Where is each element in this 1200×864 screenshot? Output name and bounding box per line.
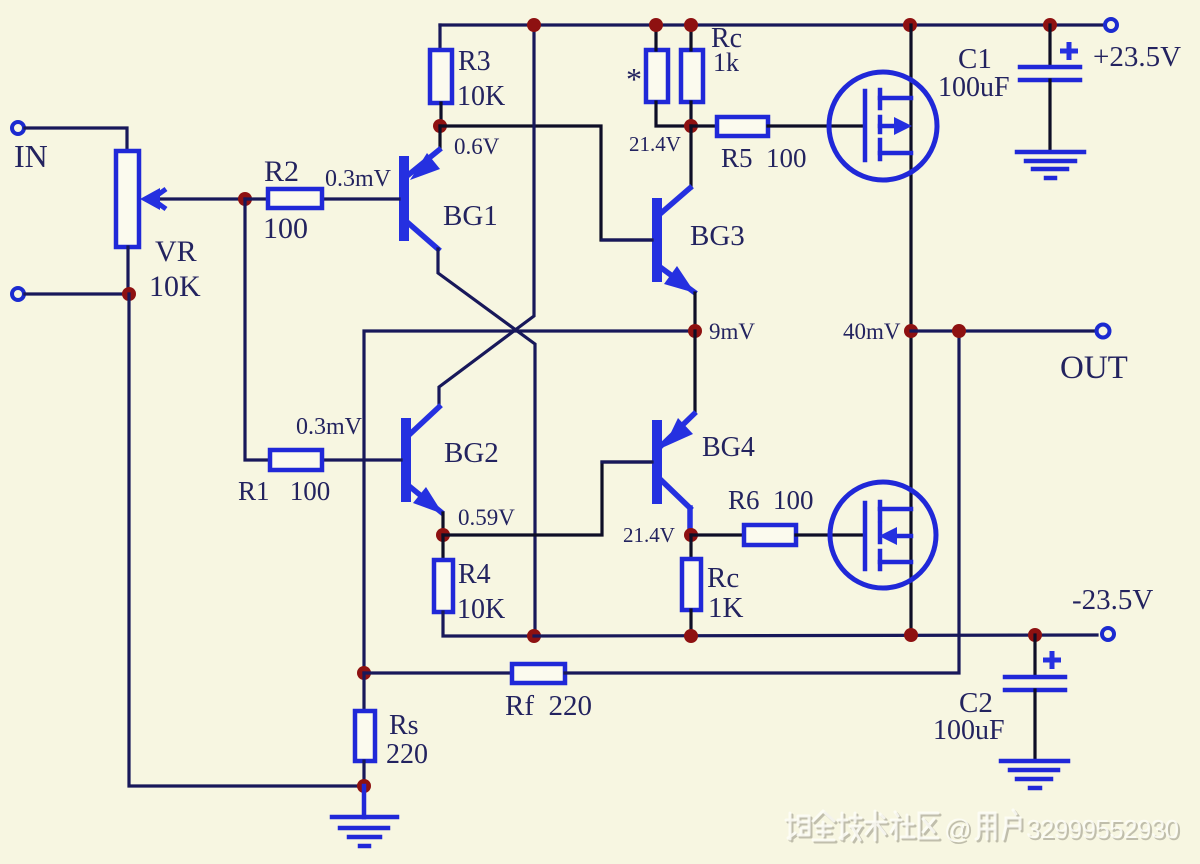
node rail dot Rc lower: [684, 629, 698, 643]
wire IN+ to VR top: [25, 128, 127, 151]
label R3: [458, 46, 491, 77]
svg-text:0.3mV: 0.3mV: [325, 166, 392, 192]
node 0.6V dot: [433, 119, 447, 133]
label Rf: [505, 690, 592, 722]
label 21.4V lower: [623, 523, 675, 547]
wire BG2 emitter stub: [441, 513, 444, 535]
wire R2 left stub: [245, 197, 268, 200]
svg-text:0.3mV: 0.3mV: [296, 414, 363, 440]
label R5: [721, 143, 807, 173]
wire R4 bottom to -V rail: [443, 612, 534, 636]
node rail dot M2: [904, 628, 918, 642]
svg-text:BG2: BG2: [444, 437, 499, 469]
label 21.4V upper: [629, 132, 681, 156]
mosfet M2: [830, 482, 936, 588]
wire 21.4V lower to Rc lower: [689, 535, 692, 559]
svg-text:VR: VR: [155, 235, 197, 268]
svg-text:BG1: BG1: [443, 200, 498, 232]
label BG1: [443, 200, 498, 232]
resistor R1: [270, 450, 322, 470]
wire -V rail: [534, 635, 1097, 636]
svg-text:IN: IN: [14, 138, 48, 174]
label R1: [238, 476, 330, 506]
label VR value: [149, 270, 201, 303]
wire 0.6V node to BG3 base: [440, 126, 651, 240]
potentiometer VR: [116, 151, 245, 247]
node rail dot M1: [903, 18, 917, 32]
wire 9mV to BG4: [693, 331, 696, 413]
label R3 value: [457, 81, 505, 112]
label 0.3mV upper: [325, 166, 392, 192]
svg-text:Rf 220: Rf 220: [505, 690, 592, 722]
wire Rf right to output node: [565, 331, 959, 673]
node 0.59V dot: [436, 528, 450, 542]
terminal +V: [1105, 19, 1117, 31]
wire Rc star stubs: [656, 25, 690, 126]
wire BG1 emitter stub: [438, 126, 441, 149]
resistor R2: [268, 189, 322, 208]
label Rc upper: [711, 23, 742, 54]
transistor BG3: [602, 188, 695, 293]
wire IN- to node: [25, 292, 129, 295]
transistor BG2: [322, 407, 443, 514]
label C2 value: [933, 715, 1005, 746]
label R2 value: [263, 212, 308, 245]
wire y331 feedback horizontal: [364, 331, 695, 673]
label OUT: [1060, 350, 1128, 386]
label +23.5V: [1093, 41, 1181, 73]
label BG2: [444, 437, 499, 469]
label R4 value: [457, 594, 505, 625]
label Rs: [389, 710, 419, 741]
label IN: [14, 138, 48, 174]
label Rs value: [386, 739, 428, 770]
svg-text:10K: 10K: [457, 81, 505, 112]
label C2: [959, 687, 993, 719]
wire R5 to gate M1: [768, 124, 863, 127]
label BG4: [702, 432, 755, 463]
svg-text:R2: R2: [264, 155, 299, 188]
transistor BG4: [602, 414, 694, 530]
svg-text:0.6V: 0.6V: [454, 134, 500, 159]
label C1 plus: [1060, 42, 1078, 60]
svg-text:BG4: BG4: [702, 432, 755, 463]
label -23.5V: [1072, 584, 1153, 616]
wire BG1 collector to X to -V rail: [438, 249, 535, 636]
label R4: [458, 559, 491, 590]
resistor Rs: [355, 711, 375, 761]
wire left vertical to bottom: [129, 294, 363, 786]
label 0.59V: [458, 505, 515, 530]
wire wiper node down to R1: [245, 199, 270, 460]
node ground dot: [357, 779, 371, 793]
label VR: [155, 235, 197, 268]
svg-text:R4: R4: [458, 559, 491, 590]
terminal IN-: [12, 288, 24, 300]
svg-text:Rc: Rc: [707, 562, 739, 594]
svg-text:R3: R3: [458, 46, 491, 77]
wire BG2 collector to X to +V rail: [439, 25, 534, 405]
svg-text:100uF: 100uF: [938, 72, 1010, 103]
resistor Rf: [512, 664, 565, 683]
svg-text:9mV: 9mV: [709, 319, 755, 344]
node 9mV dot: [688, 324, 702, 338]
label C1: [958, 43, 992, 75]
svg-text:100uF: 100uF: [933, 715, 1005, 746]
node 21.4V dot upper: [684, 119, 698, 133]
svg-text:10K: 10K: [457, 594, 505, 625]
svg-text:R1 100: R1 100: [238, 476, 330, 506]
wire 0.59V to R4: [441, 535, 444, 560]
label C1 value: [938, 72, 1010, 103]
resistor R3: [430, 50, 452, 103]
svg-text:C1: C1: [958, 43, 992, 75]
watermark: [786, 810, 1181, 846]
svg-text:21.4V: 21.4V: [623, 523, 675, 547]
label R6: [728, 485, 814, 515]
node rail dot RcA: [649, 18, 663, 32]
svg-text:+23.5V: +23.5V: [1093, 41, 1181, 73]
label 0.6V: [454, 134, 500, 159]
svg-text:*: *: [626, 61, 642, 97]
terminal IN+: [12, 122, 24, 134]
label Rc lower value: [708, 592, 744, 624]
svg-text:100: 100: [263, 212, 308, 245]
capacitor C1: [1020, 25, 1080, 151]
wire Rc 1k stubs: [689, 25, 692, 126]
node out branch dot: [952, 324, 966, 338]
resistor Rc 1k: [681, 50, 703, 102]
wire Rf node to Rf body: [364, 671, 512, 674]
node rail dot C2: [1028, 628, 1042, 642]
label 0.3mV lower: [296, 414, 363, 440]
wire R3 top stub: [438, 25, 441, 50]
svg-text:21.4V: 21.4V: [629, 132, 681, 156]
label Rc upper value: [713, 48, 739, 77]
svg-text:40mV: 40mV: [843, 319, 901, 344]
resistor R6: [744, 525, 796, 545]
resistor R5: [717, 117, 768, 136]
resistor Rc lower: [682, 559, 701, 610]
wire Rs bottom: [362, 761, 365, 786]
label Rc lower: [707, 562, 739, 594]
wire Rf left node to Rs: [362, 673, 365, 711]
terminal OUT: [1097, 325, 1110, 338]
mosfet M1: [829, 72, 937, 180]
wire 21.4V lower to R6: [691, 533, 744, 536]
ground C1: [1017, 152, 1084, 178]
wire 21.4V to BG3 collector: [689, 126, 692, 188]
svg-text:1k: 1k: [713, 48, 739, 77]
label 40mV: [843, 319, 901, 344]
svg-text:R5 100: R5 100: [721, 143, 807, 173]
wire R3 bottom stub: [439, 103, 442, 125]
node rail dot RcB: [684, 18, 698, 32]
svg-text:220: 220: [386, 739, 428, 770]
wire Rc lower to -V rail: [689, 610, 692, 636]
svg-text:1K: 1K: [708, 592, 744, 624]
svg-text:@: @: [944, 814, 971, 844]
svg-text:32999552930: 32999552930: [1026, 814, 1179, 844]
svg-text:0.59V: 0.59V: [458, 505, 515, 530]
svg-text:-23.5V: -23.5V: [1072, 584, 1153, 616]
svg-text:R6 100: R6 100: [728, 485, 814, 515]
terminal -V: [1102, 628, 1114, 640]
label 9mV: [709, 319, 755, 344]
ground (input): [332, 786, 397, 846]
node Rf left dot: [357, 666, 371, 680]
wire 21.4V to R5: [691, 124, 717, 127]
node 21.4V dot lower: [684, 528, 698, 542]
label asterisk: [626, 61, 642, 97]
resistor R4: [434, 560, 453, 612]
wire R6 to gate M2: [796, 533, 864, 536]
svg-text:Rs: Rs: [389, 710, 419, 741]
node wiper dot: [238, 192, 252, 206]
node 40mV dot: [904, 324, 918, 338]
node +V/X dot: [527, 18, 541, 32]
label BG3: [690, 220, 745, 252]
wire out horizontal: [911, 329, 1097, 332]
wire M1/M2 vertical: [909, 25, 912, 635]
wire 0.59V node to BG4 base: [443, 462, 651, 535]
label C2 plus: [1043, 651, 1061, 669]
node rail dot C1: [1043, 18, 1057, 32]
wire BG3 emitter to 9mV: [693, 293, 696, 331]
wire top +V rail: [440, 23, 1104, 26]
node IN- dot: [122, 287, 136, 301]
svg-text:BG3: BG3: [690, 220, 745, 252]
capacitor C2: [1005, 635, 1065, 760]
resistor Rc star: [646, 50, 668, 102]
node X--V rail dot: [527, 629, 541, 643]
svg-text:10K: 10K: [149, 270, 201, 303]
label R2: [264, 155, 299, 188]
svg-text:OUT: OUT: [1060, 350, 1128, 386]
ground C2: [1001, 761, 1068, 788]
wire VR bottom: [126, 247, 129, 294]
transistor BG1: [322, 150, 440, 249]
